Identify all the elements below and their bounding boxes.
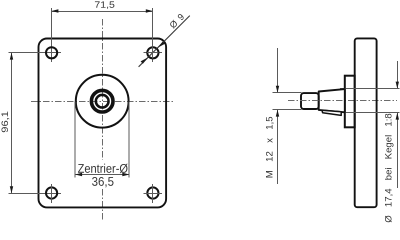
threaded stub M12	[301, 93, 319, 109]
extension line 36.5 right (tangent of boss)	[128, 102, 130, 178]
horizontal centerline	[31, 101, 173, 103]
leader arrow upper-right	[158, 42, 165, 48]
plate outline	[39, 39, 167, 208]
arrow 71.5 right	[146, 9, 153, 12]
plate side view	[355, 38, 377, 207]
arrow M12 up	[276, 110, 279, 117]
extension line dia17.4 bottom	[340, 112, 400, 114]
svg-text:M 12 x 1,5: M 12 x 1,5	[265, 116, 276, 178]
shaft cone (Kegel 1:8)	[319, 89, 345, 112]
hole bottom-left	[46, 187, 57, 198]
leader arrow lower-left	[141, 57, 148, 63]
extension line 96.1 top (through top-left hole)	[9, 52, 61, 54]
extension line M12 bottom	[273, 109, 302, 111]
leader line for hole dia 9	[139, 16, 190, 67]
dimension line dia17.4 lower segment	[397, 113, 399, 189]
arrow M12 down	[276, 86, 279, 93]
crosshair bottom-right hole vertical	[152, 184, 154, 203]
crosshair top-right hole horizontal	[143, 52, 162, 54]
dimension line dia17.4 upper segment	[397, 61, 399, 88]
centerline over stub	[288, 100, 344, 102]
extension line M12 top	[273, 92, 302, 94]
thread circle M12 (inner ring)	[96, 95, 109, 108]
svg-text:96,1: 96,1	[0, 111, 10, 133]
leader through-hole segment	[149, 48, 157, 56]
crosshair bottom-left hole vertical	[51, 184, 53, 203]
svg-text:Zentrier-Ø: Zentrier-Ø	[78, 162, 129, 176]
dimension line 36.5	[75, 174, 129, 176]
dimension line M12 lower segment	[277, 110, 279, 185]
extension line 71.5 right (through top-right hole)	[152, 8, 154, 62]
hole bottom-right	[147, 187, 158, 198]
dimension line 96.1	[11, 53, 13, 194]
hole top-right	[147, 47, 158, 58]
arrow 36.5 right	[122, 173, 129, 176]
extension line 36.5 left (tangent of boss)	[74, 102, 76, 178]
arrow 36.5 left	[75, 173, 82, 176]
arrow dia17.4 down	[396, 82, 399, 89]
centering collar side view	[345, 76, 355, 128]
svg-text:Ø 17,4 bei Kegel 1:8: Ø 17,4 bei Kegel 1:8	[383, 113, 394, 222]
extension line 96.1 bottom (through bottom-left hole)	[9, 193, 61, 195]
arrow 96.1 top	[10, 53, 13, 60]
vertical centerline of plate (lower)	[102, 189, 104, 221]
crosshair bottom-right hole horizontal	[143, 193, 162, 195]
svg-text:36,5: 36,5	[92, 175, 114, 189]
dimension line M12 upper segment	[277, 48, 279, 93]
svg-text:71,5: 71,5	[94, 0, 114, 10]
shaft centerline	[288, 100, 397, 102]
extension line 71.5 left (through top-left hole)	[51, 8, 53, 62]
crosshair top-right hole horizontal inner	[147, 52, 159, 54]
arrow 71.5 left	[51, 9, 58, 12]
centering boss circle 36.5	[76, 75, 129, 128]
hole top-left	[46, 47, 57, 58]
shaft cone circle 17.4 (thick ring)	[91, 90, 113, 112]
key tab under cone	[322, 110, 341, 115]
extension line dia17.4 top	[340, 88, 400, 90]
vertical centerline of plate (upper)	[102, 19, 104, 160]
arrow dia17.4 up	[396, 113, 399, 120]
arrow 96.1 bottom	[10, 186, 13, 193]
crosshair top-right hole vertical inner	[152, 47, 154, 59]
dimension line 71.5	[52, 11, 153, 13]
